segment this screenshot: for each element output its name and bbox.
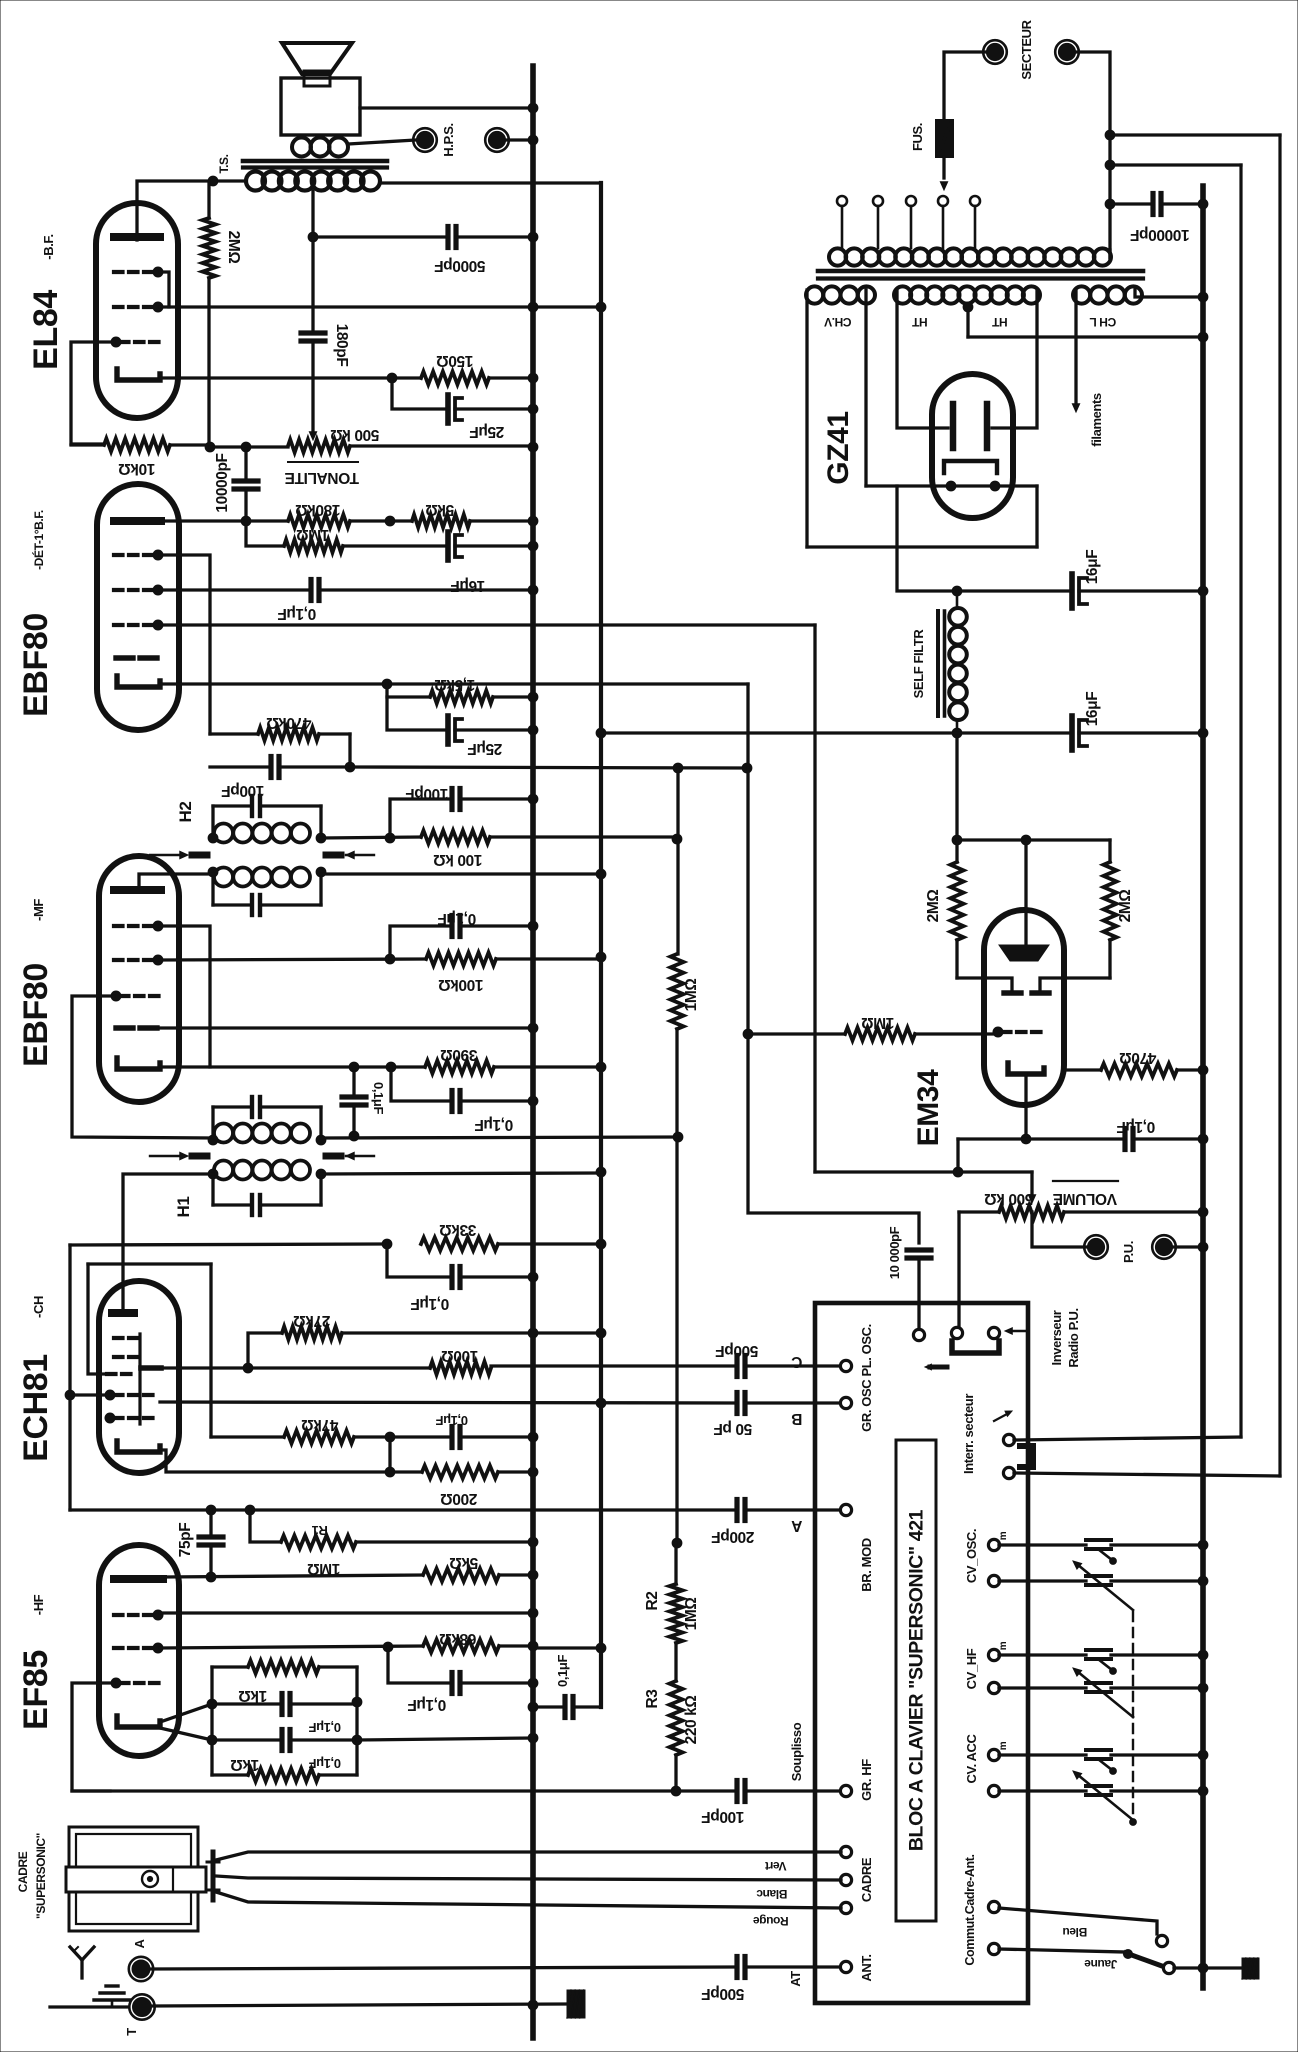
GZ41 bottom row <box>807 545 1037 548</box>
row to right edge col <box>1110 133 1280 136</box>
wire CHL left filaments <box>1074 290 1077 402</box>
wire EM34 target lead <box>1024 840 1027 943</box>
svg-text:AT: AT <box>788 1971 803 1987</box>
junction anode-2M <box>208 176 218 186</box>
label 100k H2 <box>434 851 483 868</box>
label 10000pF pickup <box>887 1226 902 1279</box>
label Rouge <box>753 1914 789 1928</box>
terminal BLOC A <box>840 1504 851 1515</box>
label SUPERSONIC quote <box>34 1833 48 1919</box>
label 0.1uF osc <box>411 1295 450 1312</box>
label R3 value <box>683 1696 700 1745</box>
svg-text:EL84: EL84 <box>27 290 65 370</box>
label 0.1uF ech <box>436 1413 468 1428</box>
wire MF g1 tie <box>160 926 210 1067</box>
EM34 deflector bars <box>1004 990 1049 995</box>
svg-text:470Ω: 470Ω <box>1120 1049 1157 1066</box>
junction bus-200 <box>528 1467 538 1477</box>
label H2 <box>176 802 195 823</box>
junction bus-tone <box>528 442 538 452</box>
label CV OSC <box>964 1529 979 1583</box>
junction bus-27k <box>528 1328 538 1338</box>
filaments arrow <box>1072 404 1079 412</box>
wire 1M drop <box>246 521 284 546</box>
contact inverseur 2 <box>988 1327 999 1338</box>
label ANT term <box>859 1954 874 1981</box>
junction 180k-5k <box>385 516 395 526</box>
junction bus-0.1 cath <box>528 1096 538 1106</box>
transformer H2 secondary coil <box>214 868 310 887</box>
wire decouple drop <box>599 1648 602 1707</box>
svg-text:EF85: EF85 <box>17 1650 55 1730</box>
terminal CV OSC trimmer <box>988 1539 999 1550</box>
label 1M avc <box>683 979 700 1012</box>
label m ACC <box>998 1741 1009 1750</box>
label BLOC A CLAVIER <box>906 1509 928 1851</box>
GZ41 filament <box>944 461 997 473</box>
B+ column <box>599 183 603 1707</box>
svg-text:Rouge: Rouge <box>753 1914 789 1928</box>
junction bus-25pF <box>528 404 538 414</box>
svg-text:ECH81: ECH81 <box>17 1354 55 1462</box>
svg-text:P.U.: P.U. <box>1121 1241 1136 1263</box>
EF85 anode row <box>163 1575 423 1577</box>
label 500pF ant <box>702 1985 745 2002</box>
CADRE connector <box>207 1852 219 1900</box>
junction 5000pF tap <box>308 232 318 242</box>
terminal BLOC GR.HF <box>840 1785 851 1796</box>
label HT 2 <box>991 315 1007 329</box>
label 100k MF <box>439 976 484 993</box>
svg-text:100pF: 100pF <box>406 785 449 802</box>
junction H1 prim right <box>316 1169 326 1179</box>
EM34 grid <box>993 1027 1042 1037</box>
terminal PU right <box>1152 1235 1176 1259</box>
capacitor 16uF output <box>1072 716 1203 750</box>
label SECTEUR <box>1019 19 1034 79</box>
label 470 ohm <box>1120 1049 1157 1066</box>
wire fil right down <box>1035 486 1038 547</box>
svg-text:2MΩ: 2MΩ <box>925 890 942 923</box>
resistor 1.5k <box>430 691 533 704</box>
k-network frame <box>212 1667 357 1775</box>
speaker LS1 cone <box>282 43 352 74</box>
junction bus-150 <box>528 373 538 383</box>
wire primary right to B+ column <box>380 181 601 184</box>
junction B+ column B row <box>596 1398 606 1408</box>
svg-text:0,1μF: 0,1μF <box>408 1696 447 1713</box>
svg-text:180pF: 180pF <box>333 324 350 367</box>
junction B+ column choke <box>596 728 606 738</box>
contact interr 2 <box>1003 1467 1014 1478</box>
junction k1 r <box>352 1697 362 1707</box>
triode box right <box>209 1264 212 1437</box>
junction bus-25uF <box>528 725 538 735</box>
EF85 g3 <box>114 1610 163 1620</box>
label 25pF <box>470 423 505 440</box>
k-network to bus <box>357 1738 533 1740</box>
svg-text:R2: R2 <box>644 1591 661 1610</box>
EBF80 MF g3 <box>111 991 160 1001</box>
BLOC box <box>815 1303 1028 2003</box>
junction bus2 CV ACC trim <box>1198 1750 1208 1760</box>
terminal T earth <box>129 1994 154 2019</box>
wire 68k-0.1 link <box>388 1647 448 1683</box>
svg-text:T.S.: T.S. <box>217 154 231 173</box>
svg-text:m: m <box>998 1641 1009 1650</box>
label 50pF B <box>714 1420 752 1437</box>
det cathode row <box>160 682 748 685</box>
label P.U. <box>1121 1241 1136 1263</box>
label 5k det <box>426 501 454 518</box>
column det to EM34 <box>748 684 919 1243</box>
junction osc g left <box>65 1390 75 1400</box>
junction bus2-16uF 2 <box>1198 728 1208 738</box>
resistor 2M right <box>1104 840 1117 978</box>
junction B+ column g2 feed <box>596 1643 606 1653</box>
variable capacitor OSC <box>999 1561 1201 1610</box>
resistor 1M avc <box>671 954 684 1137</box>
ECH81 hexode anode <box>112 1309 134 1317</box>
resistor 1k bottom <box>212 1769 357 1782</box>
label 0.1uF vert <box>371 1082 386 1114</box>
label Jaune <box>1084 1957 1117 1971</box>
resistor R1 1M <box>281 1536 533 1549</box>
junction avc <box>345 762 355 772</box>
capacitor 25uF det <box>448 716 533 744</box>
junction 75pF-EF85 anode <box>206 1572 216 1582</box>
contact jaune <box>1163 1962 1174 1973</box>
junction k2 r <box>352 1735 362 1745</box>
junction EM34 cathode row <box>1021 1134 1031 1144</box>
EM34 cathode <box>1008 1063 1044 1074</box>
label H.P.S. <box>441 123 456 157</box>
svg-text:CV_OSC.: CV_OSC. <box>964 1529 979 1583</box>
svg-text:0,1μF: 0,1μF <box>436 1413 468 1428</box>
resistor R2 1M <box>670 1543 683 1681</box>
wiper drop <box>1030 1172 1033 1194</box>
GZ41 filament row <box>866 484 1037 487</box>
ground bus right <box>1200 186 1206 1988</box>
wire cadre blanc <box>216 1876 841 1880</box>
wire H1 prim to ECH81 anode <box>123 1174 213 1308</box>
svg-text:10kΩ: 10kΩ <box>119 460 156 477</box>
label AT <box>788 1971 803 1987</box>
junction bus2 top cap <box>1198 199 1208 209</box>
junction cathode-25pF <box>387 373 397 383</box>
EL84 grid g3 <box>114 267 163 277</box>
svg-text:Jaune: Jaune <box>1084 1957 1117 1971</box>
svg-text:0,1μF: 0,1μF <box>278 605 317 622</box>
svg-text:25μF: 25μF <box>468 740 503 757</box>
resistor 5k det <box>412 515 533 528</box>
column avc to R2 <box>675 1137 678 1543</box>
label EF85 suffix <box>31 1594 46 1615</box>
label T earth <box>124 2028 139 2036</box>
junction bus-5k <box>528 1570 538 1580</box>
label CADRE <box>16 1851 30 1892</box>
wire HT tap down <box>966 305 969 337</box>
label m HF <box>998 1641 1009 1650</box>
label 470k <box>267 714 312 731</box>
chassis ground right <box>1203 1958 1259 1979</box>
svg-text:2MΩ: 2MΩ <box>225 231 242 264</box>
label 5000pF <box>434 257 485 274</box>
label CH L <box>1090 315 1116 329</box>
label 1k bottom <box>231 1756 259 1773</box>
label GR.HF <box>859 1759 874 1801</box>
capacitor 0.1uF ech cathode <box>390 1427 533 1448</box>
label VOLUME <box>1053 1190 1117 1207</box>
EBF80 det cathode <box>117 676 160 687</box>
svg-text:200pF: 200pF <box>712 1528 755 1545</box>
wire cadre vert <box>216 1852 841 1860</box>
svg-text:0,1μF: 0,1μF <box>411 1295 450 1312</box>
capacitor 0.1uF k2 <box>212 1730 357 1751</box>
HT tap row to bus2 <box>968 335 1203 338</box>
label C <box>791 1353 802 1370</box>
junction bus-5000pF <box>528 232 538 242</box>
EL84 screen row to B+ <box>160 305 601 308</box>
capacitor 180pF <box>301 237 325 431</box>
svg-text:0,1μF: 0,1μF <box>1117 1118 1156 1135</box>
tone wiper arrow <box>309 432 316 440</box>
EBF80 MF g1 <box>114 921 163 931</box>
terminal A antenna <box>129 1957 153 1981</box>
H1 coupling arrows <box>150 1152 374 1159</box>
terminal BLOC ANT <box>840 1961 851 1972</box>
svg-text:Vert: Vert <box>765 1859 786 1873</box>
capacitor 10000pF pickup <box>907 1250 931 1330</box>
EBF80 det g3 <box>114 620 163 630</box>
junction HT tap <box>963 302 973 312</box>
junction bus-EF85 0.1 <box>528 1678 538 1688</box>
junction bus-speaker <box>528 103 538 113</box>
junction fil left <box>946 481 956 491</box>
resistor 470k osc grid <box>211 1431 390 1444</box>
wire voice coil to HPS <box>348 140 416 144</box>
junction bus-k <box>528 1733 538 1743</box>
tube GZ41 <box>932 374 1013 518</box>
svg-text:2MΩ: 2MΩ <box>1117 890 1134 923</box>
transformer H1 secondary tank <box>213 1097 321 1140</box>
svg-text:1kΩ: 1kΩ <box>239 1687 267 1704</box>
label 68k <box>440 1630 477 1647</box>
triode anode row <box>161 1366 430 1369</box>
svg-text:180kΩ: 180kΩ <box>296 501 341 518</box>
transformer TS core <box>243 161 387 168</box>
transformer H2 primary tank <box>213 796 321 838</box>
EBF80 det g2 <box>114 585 163 595</box>
right column inner <box>1239 165 1242 1437</box>
ECH81 grid row2 <box>114 1355 137 1359</box>
wire 0.1uF bypass drop <box>391 1067 448 1101</box>
svg-text:CV. ACC: CV. ACC <box>964 1734 979 1784</box>
label 25uF det <box>468 740 503 757</box>
svg-text:Inverseur: Inverseur <box>1049 1310 1064 1365</box>
terminal BLOC CADRE v <box>840 1846 851 1857</box>
svg-text:T: T <box>124 2028 139 2036</box>
label 100pF g1 <box>702 1808 745 1825</box>
junction k2 l <box>207 1735 217 1745</box>
junction cath-0.1uF vert <box>349 1062 359 1072</box>
wire cadre rouge <box>216 1892 841 1908</box>
label CV HF <box>964 1648 979 1689</box>
terminal BLOC C <box>840 1360 851 1371</box>
label Commut <box>963 1854 977 1965</box>
svg-text:0,1μF: 0,1μF <box>438 910 477 927</box>
junction target-2M row <box>1021 835 1031 845</box>
junction B+ column g2 stub <box>596 952 606 962</box>
terminal CV ACC trimmer <box>988 1749 999 1760</box>
wire 0.1uF osc drop <box>387 1244 448 1277</box>
wire PU right to bus2 <box>1173 1245 1203 1248</box>
label FUS. <box>910 123 925 151</box>
transformer H2 secondary tank <box>213 872 321 915</box>
avc row to 1M column <box>350 767 747 768</box>
junction bus-MF diode <box>528 1023 538 1033</box>
junction bus-decouple <box>528 1702 538 1712</box>
svg-text:A: A <box>132 1939 147 1949</box>
junction 100pF-100k <box>385 833 395 843</box>
terminal CV ACC main <box>988 1785 999 1796</box>
GZ41 plates <box>953 404 987 448</box>
tube EM34 <box>984 910 1064 1105</box>
junction B+ column 33k <box>596 1239 606 1249</box>
tube EBF80 det <box>97 484 179 730</box>
junction bus2-volume <box>1198 1207 1208 1217</box>
svg-text:0,1μF: 0,1μF <box>555 1655 570 1687</box>
EF85 cathode <box>117 1716 160 1727</box>
antenna row <box>151 1967 733 1969</box>
junction R1-A row <box>245 1505 255 1515</box>
label BR.MOD <box>859 1538 874 1592</box>
label 16uF input <box>1084 550 1101 585</box>
svg-text:500pF: 500pF <box>702 1985 745 2002</box>
wire EM34 cathode drop <box>1024 1074 1027 1139</box>
inverseur bracket <box>925 1341 999 1370</box>
EF85 g1 row <box>72 1789 676 1792</box>
resistor 200 ohm <box>422 1466 533 1479</box>
label m OSC <box>998 1531 1009 1540</box>
wire B+ takeoff <box>897 486 957 591</box>
EL84 anode <box>114 233 160 241</box>
junction 10000pF-anode row <box>241 516 251 526</box>
terminal CV OSC main <box>988 1575 999 1586</box>
label EBF80 det <box>17 613 55 717</box>
wiper row <box>815 1170 1032 1173</box>
label 0.1uF decoupling <box>555 1655 570 1687</box>
resistor 1M EM34 <box>748 1028 1000 1041</box>
junction bus-det g2 <box>528 585 538 595</box>
junction H2 sec right <box>316 867 326 877</box>
capacitor 500pF antenna <box>737 1957 840 1978</box>
junction choke bottom <box>952 728 962 738</box>
EF85 g3 row <box>160 1611 533 1614</box>
label 16uF output <box>1084 692 1101 727</box>
wire avc top <box>210 732 258 735</box>
label 2M ohm <box>225 231 242 264</box>
svg-text:500 kΩ: 500 kΩ <box>985 1190 1034 1207</box>
junction det column 1M <box>743 1029 753 1039</box>
svg-text:TONALITE: TONALITE <box>285 469 359 486</box>
junction MF g2 0.1uF <box>385 954 395 964</box>
triode box left <box>88 1264 106 1374</box>
capacitor 0.1uF MF g2 <box>452 916 533 937</box>
junction 470k-0.1 <box>385 1432 395 1442</box>
label CADRE terms <box>859 1857 874 1902</box>
MF cathode row <box>160 1065 425 1068</box>
svg-text:470kΩ: 470kΩ <box>267 714 312 731</box>
junction cathode-1.5k <box>382 679 392 689</box>
capacitor 100pF H2 <box>452 789 533 810</box>
junction R3-g1 row <box>671 1786 681 1796</box>
svg-text:H.P.S.: H.P.S. <box>441 123 456 157</box>
svg-text:EBF80: EBF80 <box>17 613 55 717</box>
svg-text:ANT.: ANT. <box>859 1954 874 1981</box>
wire 2M feed <box>955 734 958 840</box>
wire jaune to bus2 <box>1174 1966 1203 1969</box>
svg-text:1MΩ: 1MΩ <box>297 526 330 543</box>
svg-text:CH.V: CH.V <box>824 315 851 329</box>
svg-text:390Ω: 390Ω <box>441 1046 478 1063</box>
wire commut top <box>999 1908 1157 1934</box>
junction bus2-jaune <box>1198 1963 1208 1973</box>
junction avc-EM34 column <box>742 763 752 773</box>
label Inverseur <box>1049 1310 1064 1365</box>
tube EL84 <box>96 203 178 418</box>
resistor 5k EF85 <box>423 1569 533 1582</box>
C row to 500pF <box>491 1364 733 1367</box>
vertical node osc left <box>68 1245 71 1510</box>
svg-text:5kΩ: 5kΩ <box>426 501 454 518</box>
wire secteur left to fuse <box>944 52 986 119</box>
label R1 <box>312 1523 328 1538</box>
svg-text:HT: HT <box>911 315 927 329</box>
svg-text:0,1μF: 0,1μF <box>475 1116 514 1133</box>
speaker LS1 magnet <box>304 71 330 86</box>
capacitor 25uF cathode EL84 <box>448 395 533 423</box>
svg-text:Commut.Cadre-Ant.: Commut.Cadre-Ant. <box>963 1854 977 1965</box>
terminal commut bottom <box>988 1943 999 1954</box>
B+ row after choke <box>601 731 1070 734</box>
terminal inverseur common <box>913 1329 924 1340</box>
junction choke top <box>952 586 962 596</box>
svg-text:50 pF: 50 pF <box>714 1420 752 1437</box>
label 0.1uF MF <box>438 910 477 927</box>
tube ECH81 <box>99 1281 179 1473</box>
svg-text:CV_HF: CV_HF <box>964 1648 979 1689</box>
chassis ground left <box>567 1990 585 2018</box>
transformer H1 primary coil <box>214 1161 310 1180</box>
fuse FUS <box>936 120 953 157</box>
EBF80 det diode plates <box>116 655 157 660</box>
svg-text:HT: HT <box>991 315 1007 329</box>
EF85 g2 <box>114 1643 163 1653</box>
junction bus2-16uF 1 <box>1198 586 1208 596</box>
EF85 g2 row <box>160 1646 423 1648</box>
junction R2 top <box>672 1538 682 1548</box>
label 500k <box>331 426 380 443</box>
junction B+ column cath stub <box>596 1062 606 1072</box>
svg-text:SELF FILTR: SELF FILTR <box>911 629 926 699</box>
gang dashed link <box>1130 1612 1137 1825</box>
label 27k <box>294 1312 331 1329</box>
resistor 390 ohm <box>425 1061 601 1074</box>
capacitor 10000pF coupling <box>234 449 258 521</box>
transformer TS primary <box>246 172 380 191</box>
svg-text:VOLUME: VOLUME <box>1053 1190 1117 1207</box>
